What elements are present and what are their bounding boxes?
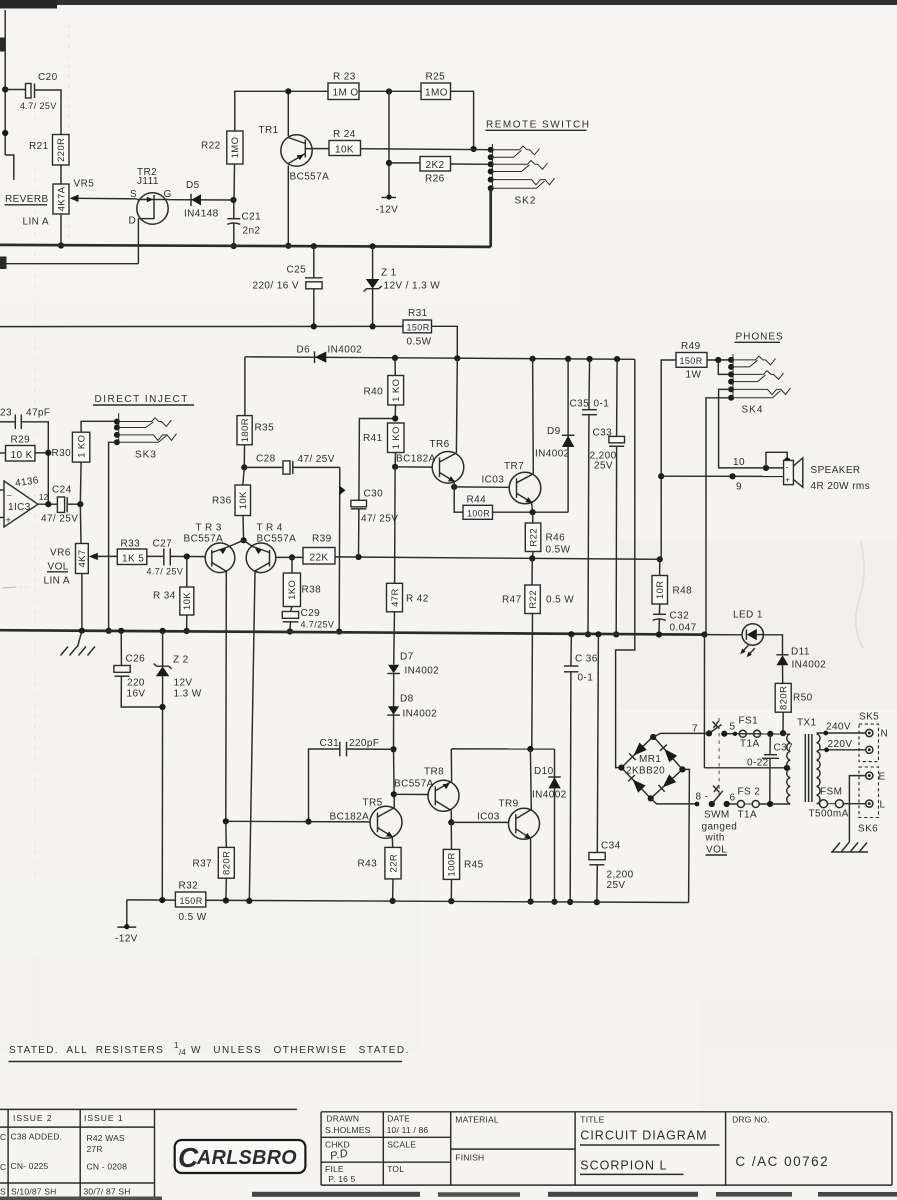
svg-text:10 K: 10 K [11, 450, 33, 461]
resistor R35 [237, 416, 252, 445]
capacitor C25 [313, 246, 315, 278]
node C36 rail4 [567, 899, 573, 905]
svg-text:N: N [881, 729, 889, 740]
wire TR5 collector up to D8 node [393, 749, 396, 808]
wire TR6 emitter down to R44 [454, 487, 463, 512]
resistor R42 47R [387, 583, 403, 612]
svg-text:R22: R22 [528, 528, 539, 547]
svg-text:TR6: TR6 [430, 439, 450, 450]
wire TR8 base row [394, 793, 429, 795]
svg-text:T R 3: T R 3 [196, 523, 222, 534]
svg-text:BC557A: BC557A [257, 534, 297, 545]
svg-text:LIN A: LIN A [23, 217, 49, 228]
svg-text:TR8: TR8 [424, 767, 444, 778]
capacitor C34 [597, 634, 598, 852]
wire R21 to VR5 [60, 165, 62, 184]
node R43 rail4 [390, 898, 396, 904]
svg-text:IN4002: IN4002 [532, 790, 567, 801]
svg-text:0.047: 0.047 [670, 623, 697, 634]
svg-text:VR6: VR6 [50, 548, 71, 559]
svg-text:REMOTE SWITCH: REMOTE SWITCH [486, 120, 591, 131]
transistor TR9 IC03 [509, 808, 540, 839]
svg-text:R 23: R 23 [333, 72, 356, 83]
node SK3 rail3 [106, 628, 112, 634]
svg-text:SCALE: SCALE [387, 1140, 416, 1150]
svg-text:6: 6 [730, 793, 736, 804]
svg-text:-12V: -12V [115, 934, 138, 945]
svg-text:1MO: 1MO [230, 137, 241, 159]
wiper arrow into VR6 [96, 555, 118, 557]
capacitor C21 2n2 [233, 200, 235, 219]
node C25 bottom [311, 323, 317, 329]
svg-text:D10: D10 [534, 766, 554, 777]
svg-text:+: + [6, 515, 12, 525]
zener Z2 12V 1.3W [162, 631, 164, 666]
svg-text:STATED. ALL RESISTERS: STATED. ALL RESISTERS [9, 1045, 164, 1056]
socket SK2 contacts [488, 147, 494, 153]
resistor R49 150R 1W [676, 353, 707, 368]
svg-text:1IC3: 1IC3 [8, 502, 31, 513]
svg-text:R46: R46 [546, 533, 566, 544]
resistor R47 [531, 558, 533, 585]
svg-text:R25: R25 [426, 72, 446, 83]
svg-text:R 34: R 34 [153, 591, 176, 602]
svg-text:4.7/ 25V: 4.7/ 25V [20, 101, 57, 111]
jack plug SK3 tip 1 [117, 418, 171, 427]
jack plug SK2 tip 3 [491, 178, 555, 185]
node C37 top [767, 731, 773, 737]
node C28 wire rail3 [336, 629, 342, 635]
jack plug SK3 tip 2 [117, 434, 177, 441]
svg-text:R35: R35 [255, 423, 275, 434]
resistor R25 [421, 83, 451, 100]
node Z1 top [370, 243, 376, 249]
svg-text:R21: R21 [29, 141, 49, 152]
svg-text:T1A: T1A [740, 739, 760, 750]
svg-text:MR1: MR1 [639, 754, 661, 765]
svg-text:ISSUE 2: ISSUE 2 [13, 1113, 53, 1123]
svg-text:R49: R49 [681, 341, 701, 352]
svg-text:220: 220 [127, 678, 145, 689]
wire R35 to C28 node [243, 445, 245, 468]
svg-text:220R: 220R [56, 138, 67, 162]
svg-text:10/ 11 / 86: 10/ 11 / 86 [387, 1125, 429, 1135]
wire bottom rail4 [127, 900, 689, 903]
wire 240V row [817, 732, 866, 734]
svg-text:1M O: 1M O [333, 88, 359, 99]
svg-text:D11: D11 [791, 647, 810, 658]
svg-text:R31: R31 [408, 308, 428, 319]
svg-text:0.5W: 0.5W [546, 545, 571, 556]
wire into C20 [5, 89, 25, 91]
node R48 row557 [657, 556, 663, 562]
svg-text:12V: 12V [174, 678, 193, 689]
node R35 R36 C28 [241, 464, 247, 470]
ground symbol SK6 earth [833, 843, 841, 852]
node VR6 rail3 [79, 628, 85, 634]
svg-text:FINISH: FINISH [455, 1153, 484, 1163]
svg-text:C21: C21 [242, 212, 262, 223]
svg-text:4K7A: 4K7A [56, 186, 67, 211]
node R46 R47 row557 [529, 555, 535, 561]
diode D11 IN4002 [776, 654, 788, 656]
left edge blob artifacts [0, 38, 5, 52]
wire 220V row [819, 749, 867, 751]
svg-text:BC557A: BC557A [184, 534, 224, 545]
node TR6 base [392, 464, 398, 470]
capacitor C35 [588, 359, 591, 410]
svg-text:4.7/25V: 4.7/25V [301, 620, 335, 630]
svg-text:30/7/ 87 SH: 30/7/ 87 SH [84, 1187, 131, 1197]
node TR8 base junction [391, 791, 397, 797]
wire speaker jumper loop [766, 452, 787, 468]
transistor TR1 BC557A [281, 135, 312, 166]
potentiometer VR6 [76, 544, 89, 574]
svg-text:J111: J111 [137, 176, 159, 187]
resistor R23 [328, 83, 359, 100]
svg-text:TR9: TR9 [499, 799, 519, 810]
node R37 TR5 base row [223, 818, 229, 824]
svg-text:R33: R33 [121, 539, 141, 550]
svg-text:LIN A: LIN A [44, 576, 70, 587]
svg-text:1W: 1W [686, 370, 702, 381]
svg-text:SWM: SWM [704, 810, 730, 821]
socket SK5 dashed box [859, 724, 879, 762]
svg-text:S: S [0, 1187, 6, 1197]
capacitor C29 [291, 607, 293, 612]
svg-text:R45: R45 [464, 860, 484, 871]
svg-text:T R 4: T R 4 [257, 523, 283, 534]
svg-text:C25: C25 [287, 265, 307, 276]
svg-text:P. 16 5: P. 16 5 [328, 1174, 355, 1184]
node 2K2 junction [386, 160, 392, 166]
wire 2K2 row [389, 162, 420, 164]
wire -12V branch vertical [388, 91, 390, 197]
title block outer lines [0, 1109, 892, 1199]
svg-text:D: D [129, 216, 137, 227]
wire R49 left corner down [661, 360, 676, 559]
capacitor C30 [358, 509, 360, 557]
node TR1 collector rail [285, 243, 291, 249]
terminal -12V bottom [126, 900, 128, 927]
svg-text:C: C [0, 1162, 6, 1172]
node C26 rail3 [118, 628, 124, 634]
svg-text:9: 9 [736, 482, 742, 493]
svg-text:C28: C28 [256, 454, 276, 465]
svg-text:47R: 47R [390, 588, 401, 607]
node Z2 rail4 [159, 897, 165, 903]
resistor R33 1K5 [117, 549, 147, 565]
wire supply row 358 [245, 357, 635, 360]
svg-text:C33: C33 [593, 428, 613, 439]
resistor R50 820R [775, 683, 791, 712]
svg-text:1 KO: 1 KO [391, 426, 402, 449]
svg-text:C34: C34 [601, 841, 621, 852]
svg-text:Z 1: Z 1 [381, 268, 397, 279]
svg-text:R22: R22 [201, 141, 221, 152]
svg-text:22K: 22K [310, 553, 329, 564]
socket SK6 dashed box [859, 767, 879, 818]
node C31 TR5 base row [305, 819, 311, 825]
wire C23 to R30 node [21, 422, 48, 504]
svg-text:12V / 1.3 W: 12V / 1.3 W [384, 281, 441, 292]
node switch pivot FS2 row [709, 801, 715, 807]
node rail3 TX tap drop [701, 632, 707, 638]
wire D7 to D8 [393, 674, 395, 707]
transformer TX1 secondary coil [817, 734, 820, 804]
svg-text:T1A: T1A [738, 810, 758, 821]
node R49 phones split [658, 473, 664, 479]
svg-text:SK3: SK3 [135, 450, 157, 461]
node R45 rail4 [448, 898, 454, 904]
svg-text:R48: R48 [673, 586, 693, 597]
bottom scan strip [0, 1197, 162, 1200]
svg-text:240V: 240V [826, 722, 851, 733]
svg-text:0.5 W: 0.5 W [546, 595, 574, 606]
svg-text:IN4002: IN4002 [405, 666, 440, 677]
svg-text:VR5: VR5 [74, 179, 95, 190]
svg-text:0-22: 0-22 [747, 758, 769, 769]
logo CARLSBRO [175, 1140, 306, 1173]
svg-text:IN4002: IN4002 [535, 449, 570, 460]
svg-text:IN4148: IN4148 [184, 209, 219, 220]
svg-text:T500mA: T500mA [809, 809, 849, 820]
transistor TR3 BC557A [205, 543, 235, 573]
svg-text:DRAWN: DRAWN [326, 1114, 359, 1124]
svg-text:180R: 180R [240, 418, 251, 442]
svg-text:G: G [164, 189, 172, 200]
svg-text:C20: C20 [38, 72, 58, 83]
svg-text:820R: 820R [779, 686, 790, 710]
svg-text:BC557A: BC557A [394, 779, 434, 790]
fuse FS1 T1A [733, 732, 737, 736]
svg-text:23: 23 [0, 408, 12, 419]
node C25 top [311, 243, 317, 249]
node 8 terminal [695, 802, 700, 807]
svg-text:CIRCUIT DIAGRAM: CIRCUIT DIAGRAM [580, 1129, 707, 1143]
svg-text:R22: R22 [528, 590, 539, 609]
svg-text:0.5W: 0.5W [407, 337, 432, 348]
svg-text:R42 WAS: R42 WAS [87, 1133, 126, 1143]
wire main ground rail top thick [0, 245, 491, 247]
resistor R31 [403, 320, 432, 333]
wire TR9 collector up [529, 749, 532, 810]
node R44 TR7 emitter [530, 509, 536, 515]
svg-text:1MO: 1MO [425, 88, 448, 99]
socket SK3 contacts [114, 419, 120, 425]
svg-text:SK4: SK4 [742, 405, 764, 416]
svg-text:IC03: IC03 [482, 475, 505, 486]
wire R22 bottom [233, 164, 236, 200]
resistor R30 1KO [72, 432, 89, 462]
svg-text:820R: 820R [222, 851, 233, 875]
svg-text:TOL: TOL [387, 1164, 404, 1174]
svg-text:4.7/ 25V: 4.7/ 25V [147, 567, 184, 577]
diode D8 IN4002 [388, 706, 399, 715]
svg-text:R50: R50 [793, 693, 813, 704]
resistor R48 10R [659, 559, 661, 575]
svg-text:C35: C35 [570, 399, 590, 410]
node left lower junction [2, 130, 8, 136]
wire TR8 emitter row [451, 748, 554, 750]
node D10 rail4 [551, 899, 557, 905]
svg-text:R26: R26 [425, 174, 445, 185]
svg-text:W UNLESS OTHERWISE STATED.: W UNLESS OTHERWISE STATED. [191, 1045, 410, 1056]
node bridge top corner [650, 734, 656, 740]
svg-text:FILE: FILE [325, 1164, 344, 1174]
capacitor C27 [147, 555, 164, 557]
transistor TR8 BC557A [428, 780, 459, 811]
resistor R32 150R [175, 892, 205, 907]
svg-text:25V: 25V [594, 461, 613, 472]
capacitor C31 220pF [347, 748, 394, 750]
transformer TX1 primary coil [787, 734, 790, 804]
diode D6 IN4002 [314, 351, 316, 363]
svg-text:R40: R40 [364, 387, 384, 398]
wire R42 bottom to D7 [393, 612, 396, 665]
svg-text:SK6: SK6 [858, 824, 878, 835]
node bridge bottom corner [648, 795, 654, 801]
fuse FSM T500mA [820, 800, 828, 808]
svg-text:CN- 0225: CN- 0225 [11, 1161, 49, 1171]
svg-text:VOL: VOL [48, 562, 69, 573]
svg-text:2K2: 2K2 [426, 160, 445, 171]
svg-text:10K: 10K [335, 145, 354, 156]
svg-text:-12V: -12V [376, 205, 399, 216]
wire TR8 collector down [450, 811, 452, 823]
svg-text:7: 7 [692, 724, 698, 735]
svg-text:47/ 25V: 47/ 25V [361, 514, 398, 525]
svg-text:SK5: SK5 [859, 712, 879, 723]
wire R30 top to SK3 [81, 421, 117, 432]
node R29 R30 [45, 450, 51, 456]
resistor R26 2K2 [420, 157, 451, 172]
wire VR6 bottom to rail [81, 574, 83, 631]
svg-text:ARLSBRO: ARLSBRO [196, 1147, 297, 1169]
wire 2K2 to SK2 [451, 163, 491, 165]
jack plug SK4 tip 2 [731, 371, 783, 380]
wire 022 row to TX tap [703, 635, 705, 768]
svg-text:5: 5 [730, 722, 736, 733]
resistor R44 100R [463, 505, 493, 519]
node C24 R30 VR6 [77, 501, 83, 507]
wire TR7 collector up [532, 359, 535, 474]
svg-text:10R: 10R [655, 580, 666, 599]
transformer TX1 core [804, 734, 806, 802]
wire C20 to R21 [35, 90, 62, 135]
capacitor C36 [568, 631, 574, 637]
svg-text:TR5: TR5 [363, 798, 383, 809]
svg-text:MATERIAL: MATERIAL [455, 1115, 499, 1125]
ground symbol below rail3 [78, 631, 82, 647]
node R50 FS1 row [780, 730, 786, 736]
svg-text:C /AC 00762: C /AC 00762 [735, 1154, 829, 1169]
svg-text:C38 ADDED.: C38 ADDED. [11, 1132, 63, 1142]
svg-text:16V: 16V [127, 689, 146, 700]
node R23 R25 junction [386, 88, 392, 94]
wire left edge vertical [4, 10, 6, 155]
node TR4 collector rail4 [246, 898, 252, 904]
svg-text:with: with [705, 833, 725, 844]
svg-text:REVERB: REVERB [5, 194, 49, 205]
switch SWM lower blade [712, 791, 723, 804]
svg-text:DATE: DATE [387, 1114, 410, 1124]
node C34 rail4 [594, 899, 600, 905]
node TR9 emitter rail4 [528, 899, 534, 905]
svg-text:PHONES: PHONES [736, 332, 784, 343]
svg-text:12: 12 [39, 493, 49, 502]
wire R31 to rail358 [432, 326, 458, 358]
svg-text:10K: 10K [238, 491, 249, 509]
svg-text:IN4002: IN4002 [403, 709, 438, 720]
svg-text:SK2: SK2 [515, 196, 537, 207]
svg-text:_: _ [6, 487, 12, 496]
node TR4 base R38 R39 [289, 554, 295, 560]
wire TR9 emitter down to rail4 [530, 838, 532, 901]
svg-text:D7: D7 [400, 652, 414, 663]
capacitor C20 [26, 84, 32, 99]
svg-text:0.5 W: 0.5 W [179, 912, 207, 923]
svg-text:VOL: VOL [706, 845, 727, 856]
svg-text:R37: R37 [193, 859, 213, 870]
wire TR7 emitter down [532, 502, 533, 512]
resistor R38 [291, 557, 293, 573]
svg-text:/4: /4 [179, 1048, 186, 1057]
svg-text:1KO: 1KO [287, 580, 298, 600]
wire D8 to C31 node [393, 715, 395, 749]
wire FS1 row [724, 733, 790, 735]
node R34 TR3 base [184, 553, 190, 559]
node bridge right corner [679, 766, 685, 772]
wire left edge jog [5, 155, 14, 180]
wire 9 row [661, 475, 783, 477]
resistor R24 [329, 141, 361, 156]
svg-text:D8: D8 [400, 694, 414, 705]
svg-text:R 42: R 42 [406, 594, 429, 605]
svg-text:TITLE: TITLE [580, 1115, 604, 1125]
node C33 row358 [614, 356, 620, 362]
wire R22 top to row [235, 91, 328, 131]
wire R49 right to SK4 [707, 359, 731, 361]
svg-text:0-1: 0-1 [578, 673, 594, 684]
svg-text:TX1: TX1 [797, 718, 817, 729]
node Z2 rail3 [160, 628, 166, 634]
svg-text:2,200: 2,200 [607, 870, 634, 881]
svg-text:2KBB20: 2KBB20 [626, 766, 665, 777]
wire SK4 contact5 to 10 row [719, 389, 784, 468]
wire -12V supply row [0, 325, 403, 327]
svg-text:100R: 100R [467, 509, 490, 519]
wire rail3 to LED1 [705, 634, 743, 636]
diode D5 IN4148 [168, 199, 233, 201]
wire TR5 base row [226, 820, 370, 823]
node R46 top [532, 511, 534, 513]
resistor R45 100R [450, 822, 452, 849]
node VR5 ground [58, 242, 64, 248]
wire R36 to emitters [242, 516, 245, 541]
svg-text:BC182A: BC182A [330, 812, 370, 823]
wire LED1 to D11 [763, 635, 782, 655]
svg-text:C30: C30 [364, 489, 384, 500]
svg-text:S.HOLMES: S.HOLMES [325, 1125, 371, 1135]
bridge rectifier MR1 2KBB20 [621, 736, 682, 798]
node TR1 base top row [285, 88, 291, 94]
node C33 rail3 [613, 631, 619, 637]
node bridge left corner [618, 765, 624, 771]
node Z1 bottom [370, 323, 376, 329]
wire D6 corner down to R35 [244, 357, 246, 416]
potentiometer VR5 [53, 184, 69, 214]
